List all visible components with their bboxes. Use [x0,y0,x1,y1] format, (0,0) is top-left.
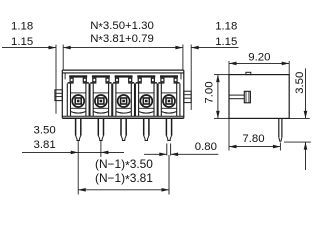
svg-text:N*3.81+0.79: N*3.81+0.79 [90,33,154,47]
svg-text:0.80: 0.80 [195,141,217,153]
svg-text:(N−1)*3.81: (N−1)*3.81 [95,171,153,187]
svg-text:3.50: 3.50 [34,125,56,137]
svg-text:1.15: 1.15 [11,36,33,48]
svg-text:9.20: 9.20 [248,52,270,64]
svg-text:7.00: 7.00 [204,81,216,103]
svg-text:1.18: 1.18 [11,21,33,33]
svg-text:3.81: 3.81 [34,139,56,151]
svg-text:1.18: 1.18 [215,21,237,33]
svg-text:N*3.50+1.30: N*3.50+1.30 [90,20,154,34]
svg-text:7.80: 7.80 [242,133,264,145]
svg-text:1.15: 1.15 [215,36,237,48]
svg-text:3.50: 3.50 [294,72,306,94]
